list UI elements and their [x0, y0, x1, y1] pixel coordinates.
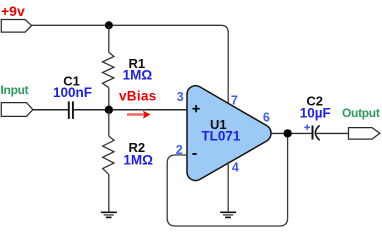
wire vBias node to op-amp pin 3 [109, 109, 187, 111]
wire pin 2 feedback loop to output node [167, 133, 287, 226]
port Input [1, 103, 33, 117]
op-amp - input marker [192, 153, 196, 155]
svg-text:1MΩ: 1MΩ [123, 153, 153, 168]
wire C2 to Output port [317, 132, 349, 134]
capacitor C2 (polarized) [312, 126, 314, 140]
wire pin 4 to ground [227, 162, 229, 212]
ground G2 under pin 4 [220, 212, 236, 217]
svg-text:TL071: TL071 [201, 129, 241, 144]
svg-text:4: 4 [232, 160, 239, 174]
junction node at rail/R1 [105, 21, 113, 29]
wire V+ rail from +9v port to pin 7 [31, 25, 228, 102]
port Output [349, 128, 380, 140]
resistor R1 [103, 25, 114, 110]
node vBias junction dot [105, 106, 113, 114]
svg-text:3: 3 [177, 90, 184, 104]
svg-text:vBias: vBias [119, 89, 157, 104]
wire op-amp output pin 6 to C2 [271, 132, 312, 134]
node output junction dot [283, 129, 291, 137]
svg-text:Output: Output [342, 106, 380, 120]
svg-text:10µF: 10µF [300, 105, 331, 120]
svg-text:100nF: 100nF [53, 85, 92, 100]
op-amp + input marker [193, 105, 200, 112]
svg-text:Input: Input [1, 83, 29, 97]
svg-text:6: 6 [263, 110, 270, 124]
port +9v [1, 20, 31, 33]
C2 + polarity mark [304, 125, 310, 131]
svg-text:+9v: +9v [1, 3, 25, 19]
ground G1 under R2 [101, 212, 117, 217]
svg-text:1MΩ: 1MΩ [123, 68, 153, 83]
vBias arrow head [143, 111, 151, 119]
vBias arrow shaft [127, 113, 145, 115]
op-amp U1 triangle body [187, 86, 271, 181]
capacitor C1 [69, 101, 73, 119]
resistor R2 [103, 110, 114, 212]
wire Input to C1 [33, 109, 69, 111]
svg-text:7: 7 [231, 94, 238, 108]
wire C1 to vBias node [73, 109, 109, 111]
